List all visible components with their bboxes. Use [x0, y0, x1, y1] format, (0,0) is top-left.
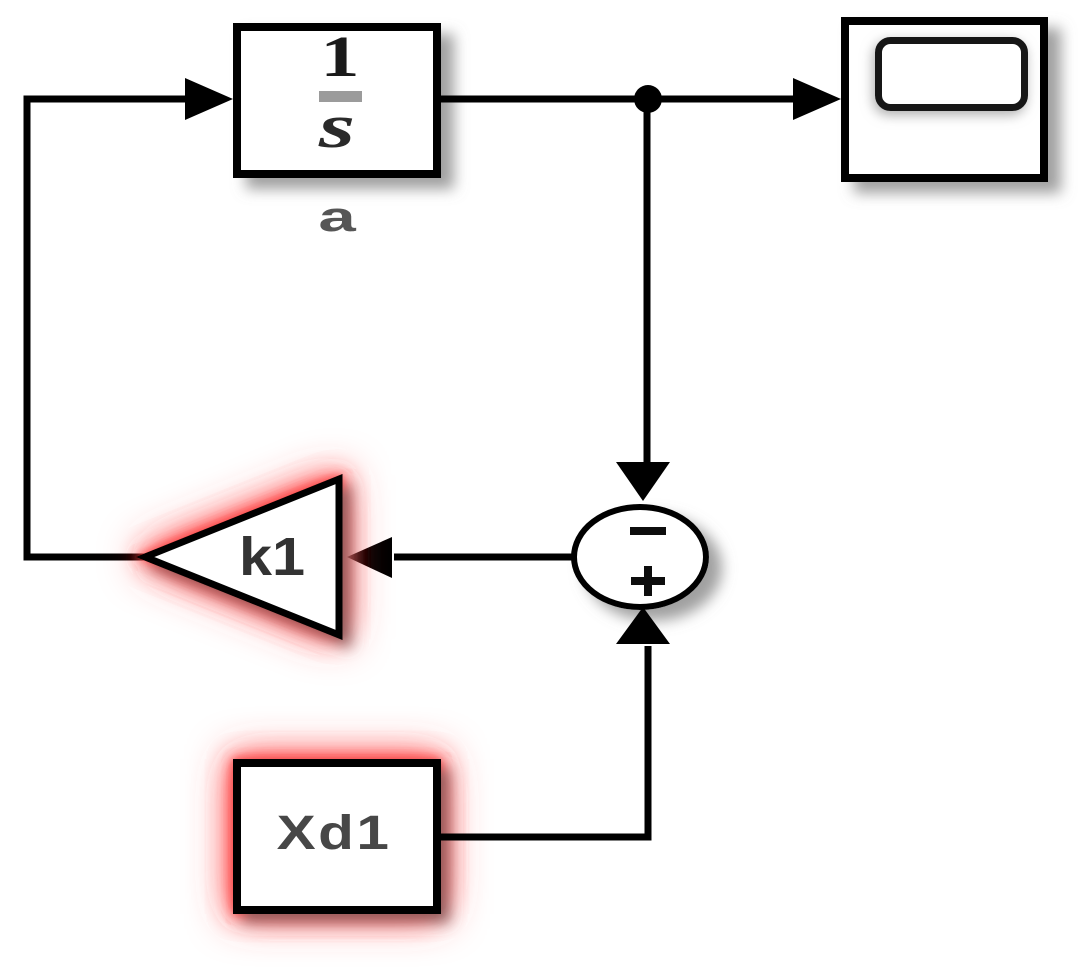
label: gain value k1 [239, 527, 305, 587]
label: fraction bar [319, 91, 362, 102]
scope screen (rounded rectangle icon) [879, 41, 1025, 108]
svg-text:k1: k1 [239, 527, 305, 587]
label: plus sign (bottom input) [631, 566, 665, 596]
arrowhead into sum bottom (plus) port [616, 607, 670, 644]
svg-text:1: 1 [320, 25, 359, 89]
arrowhead into scope input port [793, 78, 841, 120]
block: Constant Xd1 (error-highlighted) [237, 763, 437, 910]
label: numerator 1 [320, 25, 359, 89]
junction: branch node on integrator output [634, 85, 662, 113]
label: minus sign (top input) [630, 527, 666, 535]
arrowhead into integrator input port [185, 78, 233, 120]
wire: integrator output to scope [441, 96, 798, 103]
block: Scope [845, 21, 1044, 178]
label: block name a [318, 193, 356, 240]
svg-text:a: a [318, 193, 356, 240]
svg-text:s: s [318, 93, 355, 161]
wire: sum output to gain k1 input [394, 554, 574, 561]
arrowhead into sum top (minus) port [616, 462, 670, 501]
block: Gain k1 (triangle, error-highlighted) [145, 479, 339, 635]
block: Integrator 1/s (name a) [237, 27, 437, 174]
block: Sum (circle with - and +) [574, 507, 706, 607]
label: constant name Xd1 [277, 807, 392, 860]
wire: branch down to sum top input [644, 99, 651, 466]
wire: gain k1 output, left then up then right to integrator input [27, 99, 190, 557]
wire: Xd1 output right then up to sum bottom input [441, 646, 648, 837]
arrowhead into gain k1 input port [347, 537, 392, 578]
svg-text:Xd1: Xd1 [277, 807, 392, 860]
label: denominator s [318, 93, 355, 161]
